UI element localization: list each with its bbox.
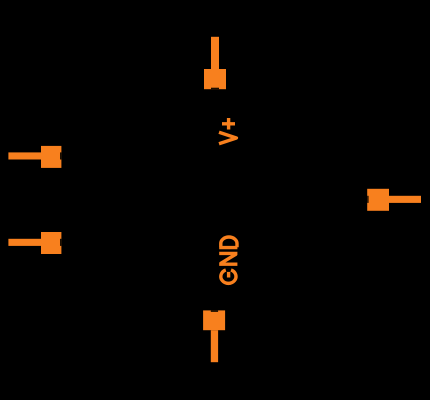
- body wire stub (black) clipping GND pad top edge: [211, 310, 218, 312]
- glyph D of GND: [219, 237, 237, 248]
- body wire stub (black) clipping IN+ pad right edge: [60, 152, 61, 159]
- pin IN- (left lower input pin): terminal pad: [41, 232, 61, 254]
- pin GND (bottom power pin): terminal pad: [203, 310, 225, 330]
- body wire stub (black) clipping IN- pad right edge: [60, 239, 61, 246]
- pin OUT (right output pin): wire lead: [389, 196, 421, 203]
- pin IN- (left lower input pin): wire lead: [8, 239, 41, 246]
- pin GND (bottom power pin): wire lead: [211, 330, 218, 362]
- label V+ (rotated 90° CCW, stroke font): [219, 118, 236, 144]
- pin V+ (top power pin): terminal pad: [204, 69, 226, 89]
- pin IN+ (left upper input pin): terminal pad: [41, 146, 61, 168]
- pin IN+ (left upper input pin): wire lead: [8, 152, 41, 159]
- body wire stub (black) clipping V+ pad bottom edge: [211, 88, 219, 90]
- pin OUT (right output pin): terminal pad: [367, 189, 389, 211]
- glyph N of GND: [219, 253, 237, 264]
- body wire stub (black) clipping OUT pad left edge: [367, 196, 368, 203]
- label GND (rotated 90° CCW, stroke font): [219, 237, 237, 283]
- pin V+ (top power pin): wire lead: [211, 37, 219, 70]
- glyph G of GND: [221, 270, 236, 283]
